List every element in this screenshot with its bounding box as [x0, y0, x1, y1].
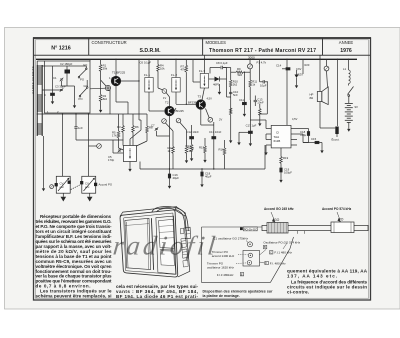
svg-text:C3 30pF: C3 30pF	[55, 85, 66, 89]
radio dial window	[156, 216, 176, 274]
capacitor C18 470uF output	[297, 128, 309, 130]
resistor R7	[185, 59, 187, 65]
svg-text:R14: R14	[186, 144, 192, 148]
svg-text:3000: 3000	[248, 55, 255, 59]
resistor R19 under IC	[280, 148, 282, 157]
test point left of CV1	[50, 185, 54, 189]
ferrite rod	[262, 225, 368, 230]
svg-text:5k6: 5k6	[238, 73, 243, 77]
wire antenna to ground	[43, 136, 45, 186]
wire right edge	[337, 59, 339, 126]
svg-text:L1: L1	[343, 67, 347, 71]
svg-text:schéma peuvent être remplac: schéma peuvent être remplacés, si	[36, 294, 112, 299]
svg-text:1976: 1976	[340, 48, 352, 54]
svg-text:Accord GO 245 kHz: Accord GO 245 kHz	[264, 207, 294, 211]
svg-text:F.I. 480 kHz: F.I. 480 kHz	[270, 262, 286, 266]
wire down to CV1	[62, 114, 64, 177]
resistor R4	[157, 59, 159, 64]
svg-text:Thomson RT 217 - Pathé Marconi: Thomson RT 217 - Pathé Marconi RV 217	[209, 48, 316, 54]
tuner front-end box	[45, 61, 91, 113]
FI square can	[243, 251, 260, 267]
test point W2	[208, 118, 213, 123]
oscillator transformer L2	[123, 146, 136, 162]
resistor R11b	[249, 80, 252, 87]
radio top face	[120, 207, 176, 217]
svg-text:acc: acc	[85, 185, 90, 189]
capacitor C19	[280, 168, 282, 172]
wire x110 link	[109, 90, 111, 114]
earphone jack	[335, 127, 338, 135]
radio lower side detail	[183, 260, 188, 267]
svg-text:C17 1μF: C17 1μF	[246, 124, 257, 128]
speaker HP	[317, 92, 322, 102]
svg-text:8Ω: 8Ω	[310, 96, 314, 100]
IC CI TAA611	[271, 125, 291, 147]
resistor R14	[190, 145, 193, 152]
ground mid tuner	[74, 95, 76, 103]
svg-text:5nF: 5nF	[233, 93, 238, 97]
wire column x231 down	[230, 104, 232, 114]
svg-text:CONSTRUCTEUR: CONSTRUCTEUR	[92, 40, 127, 45]
IC pins right	[291, 128, 297, 130]
rod ticks	[297, 231, 299, 234]
ground left of IC	[265, 145, 267, 150]
capacitor C18 on AF bus	[201, 169, 203, 172]
wire T2 down	[169, 116, 171, 169]
svg-text:FL.1: FL.1	[144, 73, 150, 77]
wire FL2 to T3	[176, 103, 196, 105]
svg-text:BF 194. La diode 46 P1 est: BF 194. La diode 46 P1 est prati-	[116, 294, 199, 299]
resistor R1	[100, 59, 102, 64]
bottom middle continuation text	[116, 284, 199, 299]
wire x303 stub	[302, 59, 304, 74]
svg-text:8k2: 8k2	[103, 97, 108, 101]
svg-text:Écout.: Écout.	[332, 137, 340, 142]
switch Int	[348, 84, 350, 86]
FI2	[265, 261, 268, 264]
header table lines	[33, 38, 371, 55]
resistor R15	[204, 138, 206, 146]
svg-text:C1: C1	[53, 76, 57, 80]
svg-text:C2 180pF: C2 180pF	[60, 62, 73, 66]
antenna ferrite coil ladder	[31, 65, 42, 136]
wire stub header to rail x320	[319, 55, 321, 59]
test point W3	[97, 144, 102, 149]
svg-text:47k: 47k	[181, 68, 186, 72]
svg-text:R20: R20	[305, 63, 310, 67]
wire mid column	[223, 67, 231, 69]
capacitor C9	[259, 59, 261, 82]
volume pot P	[248, 64, 253, 69]
resistor R6	[132, 114, 134, 126]
svg-text:39k: 39k	[103, 67, 108, 71]
radio thumbwheel 1	[181, 238, 187, 248]
test point f under T2	[176, 118, 181, 123]
resistor R13	[186, 130, 188, 147]
svg-text:R6: R6	[135, 125, 139, 129]
ground under oscillator	[128, 167, 131, 172]
resistor R17	[259, 104, 261, 109]
svg-text:C8 0,1μF: C8 0,1μF	[216, 61, 228, 65]
svg-text:2V: 2V	[219, 118, 222, 122]
wires IC input	[264, 145, 266, 169]
GO coil hatched	[267, 223, 288, 234]
test point socket	[105, 85, 110, 90]
radio bezel inner	[124, 213, 176, 274]
transistor T1	[111, 76, 121, 86]
svg-text:C7: C7	[151, 124, 155, 128]
svg-text:T1 BF225: T1 BF225	[112, 71, 126, 75]
svg-text:CI: CI	[276, 131, 279, 135]
strap mount	[185, 227, 191, 239]
svg-text:100μF: 100μF	[284, 171, 292, 175]
svg-text:0,6V: 0,6V	[296, 67, 302, 71]
tuning capacitor CV1	[56, 176, 70, 193]
svg-text:T3: T3	[198, 95, 202, 99]
switch S1 GO/PO top	[79, 70, 86, 77]
resistor R16	[224, 140, 226, 148]
transistor T2	[165, 106, 175, 116]
svg-text:Accord PO: Accord PO	[99, 183, 113, 187]
ground under R2	[99, 108, 102, 113]
wire bus 1-2 at y114	[37, 113, 111, 115]
test point M under T2	[162, 119, 167, 124]
resistor R10	[229, 80, 232, 87]
wire down to CV2	[88, 114, 90, 177]
capacitor C10 5nF	[229, 92, 232, 93]
radio divider	[151, 218, 153, 270]
svg-text:C15: C15	[311, 137, 317, 141]
svg-text:9V: 9V	[355, 105, 359, 109]
resistor R11	[229, 108, 232, 115]
radio grille area	[125, 218, 151, 269]
PO coil	[331, 222, 354, 233]
wire antenna top stub	[36, 61, 38, 65]
svg-text:C: C	[44, 93, 46, 97]
radio handle strap	[152, 207, 189, 231]
svg-text:4,5V: 4,5V	[207, 97, 213, 101]
svg-text:F.I.1 480 kHz: F.I.1 480 kHz	[274, 251, 292, 255]
wire W2 to T3	[206, 109, 210, 118]
svg-text:C: C	[270, 250, 272, 254]
svg-text:R16: R16	[219, 148, 225, 152]
svg-text:1nF: 1nF	[78, 126, 83, 130]
ground under C1	[52, 96, 54, 100]
svg-text:oscillateur 1620 kHz: oscillateur 1620 kHz	[207, 265, 235, 269]
wire FL3 feed	[192, 59, 194, 82]
capacitor C13b	[254, 96, 256, 101]
switch S1 GO/PO bottom	[80, 88, 87, 96]
ganged link dashed	[71, 185, 80, 190]
capacitor C16 on AF bus	[169, 169, 171, 174]
svg-text:C12 10nF: C12 10nF	[187, 130, 200, 134]
svg-text:N° 1216: N° 1216	[51, 46, 71, 52]
board outline	[202, 227, 294, 282]
connector diagonals	[260, 250, 267, 256]
svg-text:T2: T2	[165, 101, 169, 105]
wire T1 base/collector	[115, 59, 117, 76]
wire stub header to rail x204	[203, 55, 205, 59]
resistor R5	[118, 114, 120, 131]
svg-text:10k: 10k	[160, 67, 165, 71]
radio body front face	[120, 210, 178, 277]
junction dots	[62, 59, 349, 170]
svg-text:ANNEE: ANNEE	[339, 40, 354, 45]
svg-text:C13 10nF: C13 10nF	[209, 130, 222, 134]
wire T2 to FL2	[174, 108, 176, 111]
svg-text:Oscillateur PO,GO 574 kHz: Oscillateur PO,GO 574 kHz	[263, 241, 300, 245]
coil L1 right	[349, 70, 351, 84]
svg-text:BF239: BF239	[188, 101, 197, 105]
test point e	[324, 66, 329, 71]
radio side panel	[175, 210, 190, 277]
resistor R3	[122, 114, 124, 126]
svg-text:BF225: BF225	[176, 109, 185, 113]
svg-text:R3: R3	[117, 125, 121, 129]
svg-text:radiofil: radiofil	[112, 231, 220, 261]
wire C9 to AF	[266, 82, 268, 114]
svg-text:CADRE FERRITE: CADRE FERRITE	[31, 66, 35, 94]
PO-Gr-GO tag	[240, 227, 243, 230]
svg-text:17k: 17k	[112, 134, 117, 138]
wire tp	[90, 87, 105, 90]
svg-text:ci-contre.: ci-contre.	[287, 290, 309, 295]
svg-text:611B: 611B	[274, 139, 281, 143]
svg-text:E: E	[241, 272, 243, 276]
wire column x244 C11	[243, 72, 245, 102]
resistor R2	[99, 95, 102, 102]
ground under battery	[347, 127, 350, 132]
svg-text:10μF: 10μF	[260, 84, 267, 88]
svg-text:C6 0,1μF: C6 0,1μF	[140, 61, 152, 65]
wire B+ IC	[286, 116, 288, 125]
wires tuner internal	[52, 66, 54, 93]
svg-text:46P1: 46P1	[213, 83, 220, 87]
svg-text:2k2: 2k2	[233, 83, 238, 87]
trimmer C5	[118, 149, 122, 153]
svg-text:MODELES: MODELES	[206, 40, 227, 45]
transistor T3	[196, 100, 206, 110]
svg-text:170p: 170p	[108, 158, 115, 162]
svg-text:10nF: 10nF	[257, 101, 264, 105]
wire to T2	[166, 93, 169, 97]
FI1	[270, 251, 273, 254]
capacitor C1 100uF electrolytic	[51, 93, 55, 95]
trimmer C7	[155, 127, 159, 131]
watermark radiofil	[112, 231, 220, 261]
wire FL1 to oscillator	[140, 120, 142, 130]
svg-text:FL.2: FL.2	[171, 73, 177, 77]
wire B+ top rail	[36, 58, 357, 60]
radio small button	[180, 228, 184, 234]
svg-text:4,5V: 4,5V	[292, 117, 298, 121]
battery 9V	[348, 96, 350, 103]
capacitor C15	[297, 133, 303, 135]
capacitor C2 180pF	[59, 65, 74, 67]
svg-text:1V: 1V	[163, 96, 166, 100]
wire T3 emitter to C13 column	[200, 118, 202, 125]
tuning capacitor CV2	[82, 176, 96, 193]
wire speaker return	[320, 127, 335, 129]
svg-text:osc: osc	[60, 185, 65, 189]
svg-text:C11: C11	[239, 98, 244, 102]
svg-text:B: B	[264, 245, 266, 249]
resistor R8	[146, 114, 148, 126]
svg-text:R9: R9	[237, 67, 241, 71]
svg-text:40μF: 40μF	[173, 176, 180, 180]
screw C1	[248, 242, 253, 247]
svg-text:F.I.3 480kHz: F.I.3 480kHz	[217, 273, 234, 277]
svg-text:P1 4,7k: P1 4,7k	[257, 61, 267, 65]
test point W1	[162, 89, 167, 94]
wire bus mid (AGC line)	[110, 113, 147, 115]
resistor R9 horizontal	[236, 71, 243, 74]
ground under FL3	[218, 84, 220, 90]
resistor R12	[172, 131, 174, 147]
wire AF bus	[140, 168, 265, 170]
svg-text:Accord PO 574 kHz: Accord PO 574 kHz	[322, 207, 352, 211]
svg-text:1,2V: 1,2V	[109, 76, 115, 80]
svg-text:la platine de montage.: la platine de montage.	[203, 294, 240, 298]
IC pins left	[266, 128, 271, 130]
document frame	[34, 38, 371, 300]
bottom right text	[287, 269, 368, 295]
svg-text:R19: R19	[283, 156, 289, 160]
radio thumbwheel 2	[182, 249, 187, 258]
wire vertical to FL1	[138, 59, 140, 120]
svg-text:40μF: 40μF	[205, 175, 212, 179]
svg-text:C14: C14	[276, 64, 282, 68]
svg-text:R15: R15	[199, 146, 205, 150]
diode 46P1	[215, 77, 220, 82]
svg-text:S.D.R.M.: S.D.R.M.	[139, 48, 161, 54]
capacitor osc coupling	[74, 127, 77, 128]
